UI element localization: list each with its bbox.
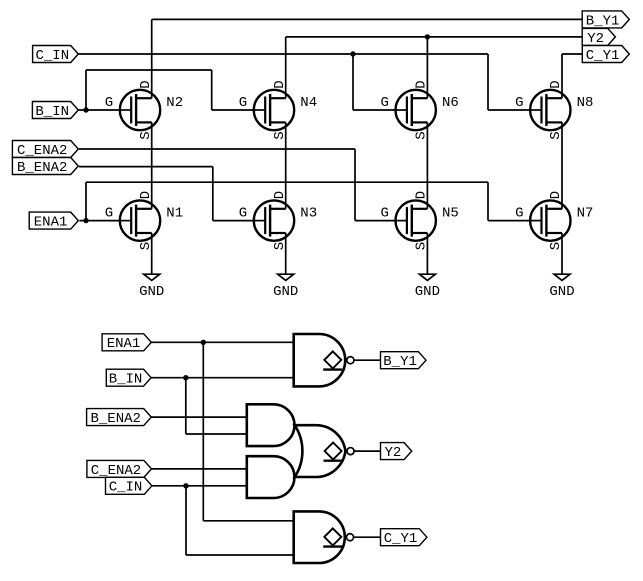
svg-text:N5: N5 — [442, 205, 459, 221]
wire C_IN branch down to N6 gate — [352, 54, 354, 110]
svg-text:ENA1: ENA1 — [107, 336, 141, 352]
global label B_ENA2 — [12, 158, 78, 176]
global label C_IN (logic) — [106, 477, 152, 495]
transistor N2 — [105, 80, 183, 139]
global label C_ENA2 — [12, 141, 78, 159]
wire col4 N7.S to GND — [561, 233, 563, 274]
wire ENA1 to N7 gate — [488, 220, 532, 222]
svg-text:S: S — [414, 242, 430, 250]
global label C_ENA2 (logic) — [87, 460, 152, 478]
svg-text:G: G — [105, 205, 113, 221]
svg-text:N7: N7 — [577, 205, 594, 221]
wire ENA1 to NAND3 input A — [203, 520, 293, 522]
wire C_ENA2 to N5 gate — [355, 220, 397, 222]
svg-text:S: S — [272, 131, 288, 139]
junction C_IN logic branch — [183, 483, 188, 488]
svg-text:N8: N8 — [577, 95, 594, 111]
svg-text:N3: N3 — [300, 205, 317, 221]
wire NAND3 output to C_Y1 — [354, 536, 381, 538]
wire C_IN to N6 gate — [353, 109, 397, 111]
junction Y2/N6 — [425, 34, 430, 39]
ground GND — [273, 274, 298, 300]
wire ENA1 to N1 gate — [80, 220, 122, 222]
svg-text:GND: GND — [273, 284, 298, 300]
wire col1 N1.S to GND — [151, 233, 153, 274]
svg-text:ENA1: ENA1 — [34, 215, 68, 231]
transistor N1 — [105, 191, 183, 250]
global label Y2 (out) — [381, 443, 412, 461]
global label Y2 — [582, 28, 615, 46]
svg-text:GND: GND — [415, 284, 440, 300]
wire B_IN to N2 gate — [79, 109, 122, 111]
junction B_IN branch — [83, 107, 88, 112]
svg-text:D: D — [548, 191, 564, 199]
wire C_IN horizontal — [79, 53, 489, 55]
global label C_Y1 (out) — [381, 529, 427, 547]
svg-text:C_Y1: C_Y1 — [586, 48, 620, 64]
svg-text:G: G — [105, 95, 113, 111]
svg-text:B_Y1: B_Y1 — [383, 354, 417, 370]
wire Y2 to N4 drain — [285, 37, 287, 98]
svg-text:N6: N6 — [442, 95, 459, 111]
svg-text:S: S — [548, 131, 564, 139]
svg-text:G: G — [380, 95, 388, 111]
svg-text:D: D — [138, 191, 154, 199]
junction ENA1 logic branch — [201, 340, 206, 345]
wire B_ENA2 to N3 gate — [213, 220, 256, 222]
wire B_IN to NAND1 input B — [151, 377, 294, 379]
svg-text:B_ENA2: B_ENA2 — [90, 411, 140, 427]
wire NAND1 output to B_Y1 — [354, 359, 381, 361]
global label B_Y1 — [582, 11, 629, 29]
wire ENA1 up — [85, 182, 87, 220]
wire ENA1 step over — [86, 181, 488, 183]
wire C_ENA2 to AND2 input A — [151, 468, 247, 470]
ground GND — [139, 274, 164, 300]
svg-text:D: D — [138, 80, 154, 88]
global label ENA1 (logic) — [102, 334, 151, 352]
wire B_Y1 horizontal — [152, 18, 583, 20]
svg-text:D: D — [272, 191, 288, 199]
wire B_Y1 to N2 drain — [151, 19, 153, 98]
wire col3 N5.S to GND — [426, 233, 428, 274]
wire C_IN down to N8 gate — [487, 54, 489, 110]
wire B_IN down to AND1 — [185, 378, 187, 434]
svg-text:D: D — [548, 80, 564, 88]
transistor N4 — [239, 80, 317, 139]
global label C_IN — [33, 46, 79, 64]
svg-text:C_IN: C_IN — [109, 480, 143, 496]
junction B_IN logic branch — [183, 375, 188, 380]
svg-text:S: S — [272, 242, 288, 250]
wire B_IN up — [85, 70, 87, 110]
wire col2 N3.S to GND — [285, 233, 287, 274]
svg-text:GND: GND — [139, 284, 164, 300]
svg-text:C_ENA2: C_ENA2 — [17, 143, 67, 159]
svg-text:B_ENA2: B_ENA2 — [17, 160, 67, 176]
svg-text:G: G — [239, 95, 247, 111]
wire ENA1 step down — [487, 182, 489, 220]
wire ENA1 to NAND1 input A — [151, 341, 294, 343]
wire col2 N4.S to N3.D — [285, 122, 287, 208]
svg-text:Y2: Y2 — [587, 31, 604, 47]
wire C_ENA2 horizontal — [79, 148, 355, 150]
wire B_IN step down — [211, 70, 213, 110]
global label B_IN — [32, 102, 78, 120]
gate U2a AND1 (AND) — [247, 404, 295, 446]
svg-text:S: S — [548, 242, 564, 250]
gate U1 NAND1 (NAND, open-drain) — [294, 334, 354, 386]
wire Y2 to N6 drain — [426, 37, 428, 98]
wire B_ENA2 to AND1 input A — [151, 416, 247, 418]
junction ENA1 branch — [83, 218, 88, 223]
svg-text:C_Y1: C_Y1 — [384, 531, 418, 547]
wire B_IN to N4 gate — [212, 109, 256, 111]
global label B_Y1 (out) — [381, 352, 427, 370]
svg-text:GND: GND — [549, 284, 574, 300]
svg-text:B_IN: B_IN — [35, 104, 69, 120]
wire C_IN down to NAND3 — [185, 486, 187, 555]
svg-text:S: S — [414, 131, 430, 139]
svg-text:Y2: Y2 — [384, 445, 401, 461]
ground GND — [415, 274, 440, 300]
svg-text:B_IN: B_IN — [109, 372, 143, 388]
wire col4 N8.S to N7.D — [561, 122, 563, 208]
wire C_IN to AND2 input B — [152, 485, 247, 487]
wire B_IN step over — [86, 69, 212, 71]
svg-text:D: D — [414, 80, 430, 88]
wire C_Y1 horizontal — [562, 53, 582, 55]
transistor N8 — [515, 80, 593, 139]
wire C_ENA2 down — [354, 149, 356, 221]
gate U2b AND2 (AND) — [247, 456, 295, 498]
wire B_ENA2 down — [212, 167, 214, 221]
gate U3 NAND3 (NAND, open-drain) — [294, 511, 354, 563]
svg-text:C_IN: C_IN — [35, 48, 69, 64]
global label ENA1 — [29, 212, 78, 230]
wire col3 N6.S to N5.D — [426, 122, 428, 208]
svg-text:N4: N4 — [300, 95, 317, 111]
svg-text:G: G — [515, 95, 523, 111]
svg-text:D: D — [414, 191, 430, 199]
global label B_IN (logic) — [106, 369, 151, 387]
svg-text:S: S — [138, 131, 154, 139]
svg-text:N1: N1 — [166, 205, 183, 221]
svg-text:S: S — [138, 242, 154, 250]
transistor N5 — [380, 191, 458, 250]
global label B_ENA2 (logic) — [87, 409, 152, 427]
svg-text:G: G — [380, 205, 388, 221]
wire C_IN to NAND3 input B — [186, 554, 294, 556]
wire ENA1 down to NAND3 — [202, 342, 204, 521]
wire B_ENA2 horizontal — [79, 166, 213, 168]
transistor N6 — [380, 80, 458, 139]
wire C_Y1 to N8 drain — [561, 54, 563, 98]
transistor N7 — [515, 191, 593, 250]
gate U2c (NOR, open-drain) — [295, 425, 354, 477]
wire col1 N2.S to N1.D — [151, 122, 153, 208]
transistor N3 — [239, 191, 317, 250]
svg-text:C_ENA2: C_ENA2 — [91, 463, 141, 479]
ground GND — [549, 274, 574, 300]
svg-text:G: G — [239, 205, 247, 221]
svg-text:N2: N2 — [166, 95, 183, 111]
wire B_IN to AND1 input B — [186, 433, 247, 435]
svg-text:G: G — [515, 205, 523, 221]
svg-text:B_Y1: B_Y1 — [586, 13, 620, 29]
global label C_Y1 — [582, 46, 629, 64]
wire NOR output to Y2 — [354, 450, 380, 452]
junction C_IN/N6 — [350, 51, 355, 56]
svg-text:D: D — [272, 80, 288, 88]
wire Y2 horizontal — [286, 36, 583, 38]
wire C_IN to N8 gate — [488, 109, 532, 111]
